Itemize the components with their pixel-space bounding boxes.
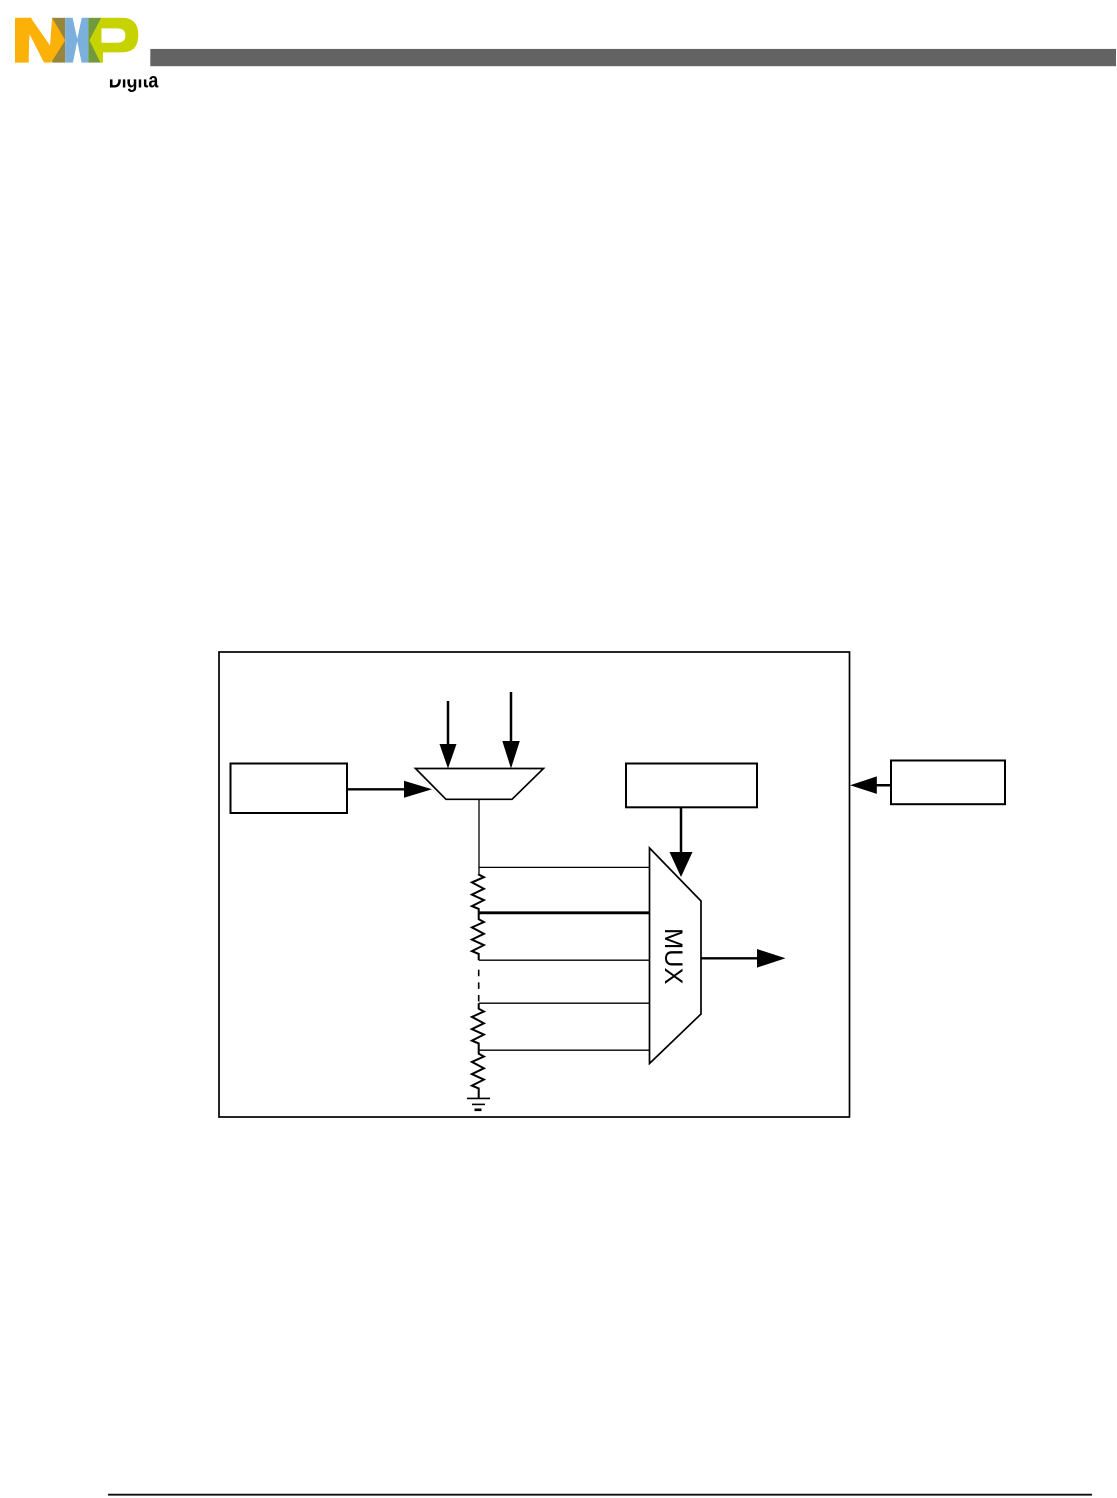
logo dark green overlap bar (P left) [88, 18, 101, 63]
resistor R2 [472, 913, 484, 960]
tap wire 5 [479, 1049, 650, 1051]
footer rule [108, 1494, 1092, 1496]
dashed ladder continuation wire [478, 970, 480, 1003]
tap wire 1 [479, 866, 650, 868]
MUX output arrowhead [757, 949, 786, 968]
tap wire 3 [479, 959, 650, 961]
white overlay clipping top of heading [95, 67, 149, 80]
resistor R3 [472, 1003, 484, 1050]
logo lime P [89, 18, 138, 63]
external control box (right) [891, 761, 1005, 805]
logo blue X [65, 18, 88, 63]
MUX U2 [650, 848, 702, 1064]
wire from reference mux output down to resistor ladder [478, 799, 480, 874]
DACDAT register box [626, 764, 757, 808]
ground [467, 1098, 490, 1109]
wire from left box to reference mux [347, 788, 405, 790]
arrowhead into reference mux [404, 781, 432, 798]
resistor R1 [472, 874, 484, 913]
arrowhead into module boundary [850, 776, 877, 794]
reference input arrowhead 2 [502, 741, 520, 769]
svg-text:MUX: MUX [659, 928, 687, 984]
logo olive overlap bar (N right stem) [52, 18, 65, 63]
logo orange N chevron [29, 18, 52, 63]
select wire from DACDAT box into MUX [680, 807, 683, 853]
header bar [150, 49, 1116, 66]
MUX output wire [701, 957, 758, 959]
logo orange N chevron head [48, 18, 65, 63]
logo orange N left stem [15, 18, 31, 63]
NXP logo [15, 18, 138, 63]
wire from external box toward module [874, 784, 891, 787]
tap wire 4 [479, 1002, 650, 1004]
reference input arrowhead 1 [440, 744, 457, 769]
reference select mux (trapezoid) [416, 769, 544, 800]
DAC module boundary box [219, 652, 850, 1117]
select arrowhead into MUX [670, 852, 693, 877]
control register box (left) [231, 764, 348, 814]
tap wire 2 (selected, thick) [479, 911, 650, 914]
reference input wire 2 [510, 692, 513, 742]
resistor R4 [472, 1050, 484, 1098]
reference input wire 1 [447, 701, 450, 745]
